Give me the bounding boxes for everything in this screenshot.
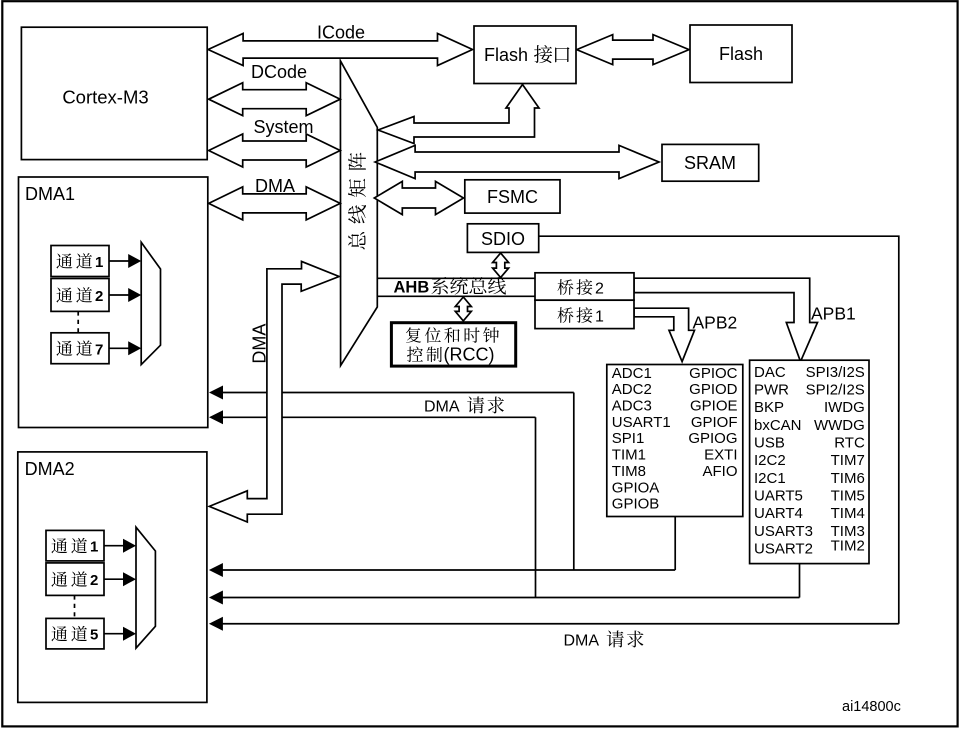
DMA2 channel box 通道2	[46, 563, 104, 596]
block Flash	[690, 25, 792, 83]
svg-text:Flash: Flash	[484, 45, 528, 65]
svg-text:SDIO: SDIO	[481, 229, 525, 249]
svg-text:DMA: DMA	[250, 324, 270, 364]
L-shaped arrow: matrix to Flash interface (up arrow)	[378, 85, 539, 144]
dashed line DMA1 channels	[77, 311, 79, 332]
wire: DMA2 request line C from SDIO route	[221, 623, 899, 625]
svg-text:ADC1: ADC1	[612, 365, 652, 382]
label 控制(RCC)	[407, 347, 423, 363]
svg-text:ADC2: ADC2	[612, 381, 652, 398]
svg-text:UART4: UART4	[754, 505, 803, 522]
DMA2 mux trapezoid	[136, 527, 155, 648]
svg-text:APB2: APB2	[693, 313, 738, 333]
bus arrow matrix to FSMC	[374, 181, 463, 214]
bus arrow System (Cortex-M3 to matrix)	[209, 134, 341, 167]
label 复位和时钟	[406, 327, 421, 343]
svg-text:DMA: DMA	[564, 633, 600, 650]
svg-text:DAC: DAC	[754, 364, 786, 381]
dashed line DMA2 channels	[74, 595, 76, 618]
svg-text:SPI3/I2S: SPI3/I2S	[806, 364, 865, 381]
svg-text:I2C2: I2C2	[754, 452, 786, 469]
block Cortex-M3	[21, 27, 207, 159]
label 桥接2	[557, 279, 573, 295]
bus arrow ICode (Cortex-M3 to Flash interface)	[208, 34, 472, 66]
labels DMA2 channels	[51, 538, 67, 553]
block FSMC	[465, 180, 560, 213]
svg-text:AHB: AHB	[394, 279, 430, 297]
svg-text:Cortex-M3: Cortex-M3	[62, 86, 148, 107]
svg-text:GPIOB: GPIOB	[612, 496, 660, 513]
svg-text:ICode: ICode	[317, 23, 365, 43]
wire: DMA2 request line A	[221, 569, 675, 571]
svg-text:AFIO: AFIO	[702, 463, 737, 480]
svg-text:BKP: BKP	[754, 399, 784, 416]
DMA2 channel arrows	[104, 545, 125, 547]
hollow down arrow APB2 (from bridge1)	[634, 308, 695, 361]
svg-text:1: 1	[90, 539, 98, 556]
wire: AHB system bus upper line (matrix to bridge2)	[377, 277, 535, 279]
svg-text:2: 2	[595, 281, 604, 298]
block DMA2	[18, 452, 207, 703]
svg-text:UART5: UART5	[754, 488, 803, 505]
svg-text:APB1: APB1	[811, 304, 856, 324]
small vertical double arrow: SDIO to AHB bus	[493, 253, 509, 278]
svg-text:WWDG: WWDG	[814, 417, 865, 434]
labels DMA1 channels	[56, 253, 72, 268]
wire: DMA1 request line 1 with riser at x=573.8 down to line A	[573, 393, 575, 571]
bus matrix polygon 总线矩阵	[340, 61, 377, 366]
DMA2 channel box 通道1	[46, 530, 104, 561]
block APB1 peripheral list	[750, 360, 869, 563]
svg-text:RTC: RTC	[834, 435, 865, 452]
svg-text:TIM6: TIM6	[831, 470, 865, 487]
DMA1 channel box 通道7	[51, 333, 109, 364]
svg-text:ai14800c: ai14800c	[842, 699, 901, 715]
svg-text:DMA: DMA	[255, 176, 295, 196]
svg-text:PWR: PWR	[754, 382, 789, 399]
svg-text:GPIOF: GPIOF	[691, 414, 738, 431]
label 桥接1	[557, 307, 573, 323]
wire: APB2 box bottom to DMA2 request line A	[674, 517, 676, 571]
wire: SDIO to DMA2 request route (right and down)	[539, 236, 899, 624]
block APB2 peripheral list	[607, 365, 743, 517]
label 总线矩阵 vertical (rotated)	[348, 232, 365, 249]
svg-text:TIM1: TIM1	[612, 447, 646, 464]
wire: AHB system bus lower line (matrix to bridge1)	[377, 295, 535, 297]
svg-text:1: 1	[595, 309, 604, 326]
svg-text:Flash: Flash	[719, 44, 763, 64]
DMA1 channel arrows	[109, 260, 130, 262]
svg-text:System: System	[253, 117, 313, 137]
small vertical double arrow: AHB bus to RCC	[455, 297, 471, 321]
svg-text:IWDG: IWDG	[824, 399, 865, 416]
svg-text:GPIOG: GPIOG	[688, 430, 737, 447]
svg-text:TIM4: TIM4	[831, 505, 865, 522]
svg-text:TIM2: TIM2	[831, 538, 865, 555]
svg-text:(RCC): (RCC)	[444, 345, 495, 365]
DMA1 channel box 通道1	[51, 246, 109, 277]
DMA1 channel box 通道2	[51, 279, 109, 312]
svg-text:SPI2/I2S: SPI2/I2S	[806, 382, 865, 399]
svg-text:2: 2	[95, 288, 103, 305]
svg-text:GPIOC: GPIOC	[689, 365, 738, 382]
svg-text:USART1: USART1	[612, 414, 671, 431]
block RCC 复位和时钟控制	[391, 323, 515, 366]
L-shaped double arrow: DMA2 to matrix	[209, 261, 339, 522]
block bridge1 桥接1	[535, 300, 634, 328]
svg-text:DCode: DCode	[251, 62, 307, 82]
svg-text:ADC3: ADC3	[612, 398, 652, 415]
svg-text:5: 5	[90, 627, 98, 644]
bus arrow Flash interface to Flash	[577, 35, 689, 65]
svg-text:GPIOA: GPIOA	[612, 479, 660, 496]
svg-text:TIM7: TIM7	[831, 452, 865, 469]
svg-text:USART3: USART3	[754, 523, 813, 540]
svg-text:1: 1	[95, 254, 103, 271]
svg-text:2: 2	[90, 572, 98, 589]
bus arrow DMA (DMA1 to matrix)	[209, 187, 341, 220]
svg-text:EXTI: EXTI	[704, 447, 737, 464]
bus arrow DCode (Cortex-M3 to matrix)	[209, 83, 341, 116]
svg-text:GPIOE: GPIOE	[690, 398, 738, 415]
bus arrow matrix to SRAM	[375, 145, 659, 178]
block bridge2 桥接2	[535, 273, 634, 300]
block DMA1	[19, 177, 208, 428]
DMA2 channel box 通道5	[46, 618, 104, 649]
svg-text:I2C1: I2C1	[754, 470, 786, 487]
svg-text:GPIOD: GPIOD	[689, 381, 738, 398]
block SDIO	[467, 224, 538, 253]
svg-text:USB: USB	[754, 435, 785, 452]
svg-text:TIM5: TIM5	[831, 488, 865, 505]
block SRAM	[662, 144, 759, 181]
wire: DMA1 request line 2 with riser at x=535.5 down to line B	[535, 417, 537, 597]
wire: APB1 box bottom to DMA2 request line B	[799, 564, 801, 598]
svg-text:7: 7	[95, 341, 103, 358]
svg-text:SRAM: SRAM	[684, 153, 736, 173]
svg-text:DMA1: DMA1	[25, 184, 75, 204]
svg-text:DMA2: DMA2	[25, 459, 75, 479]
wire: DMA2 request line B	[221, 597, 800, 599]
block Flash interface (Flash 接口)	[474, 26, 576, 84]
svg-text:DMA: DMA	[424, 399, 460, 416]
DMA1 mux trapezoid	[141, 242, 160, 364]
hollow down arrow APB1 (from bridge2)	[634, 278, 818, 361]
svg-text:FSMC: FSMC	[487, 187, 538, 207]
svg-text:TIM8: TIM8	[612, 463, 646, 480]
svg-text:bxCAN: bxCAN	[754, 417, 802, 434]
svg-text:SPI1: SPI1	[612, 430, 645, 447]
svg-text:USART2: USART2	[754, 541, 813, 558]
